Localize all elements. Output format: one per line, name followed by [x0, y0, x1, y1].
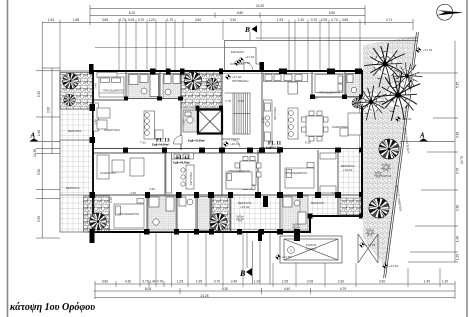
elevation markers [416, 47, 421, 52]
svg-text:5.75: 5.75 [262, 117, 266, 123]
svg-text:24.25: 24.25 [256, 4, 264, 8]
svg-text:Εμβ=84,50m²: Εμβ=84,50m² [173, 161, 190, 165]
FL13 kitchen island + stools [144, 111, 163, 139]
svg-text:ΥΠΝΟΔΩΜΑΤΙΟ: ΥΠΝΟΔΩΜΑΤΙΟ [228, 169, 251, 173]
svg-text:6.80: 6.80 [237, 11, 243, 15]
plot boundary diagonal [384, 32, 419, 278]
svg-text:+17.00: +17.00 [241, 61, 251, 65]
left rotated dim labels [33, 91, 51, 222]
outer envelope walls [93, 71, 362, 232]
svg-text:3.16: 3.16 [456, 132, 460, 138]
FL13 second bath [163, 74, 181, 99]
FL13 bath fixtures [129, 75, 159, 97]
planter box top-left [60, 73, 93, 110]
FL11 kitchen counter left wall [264, 100, 273, 148]
svg-text:ΚΟΥΖΙΝΑ: ΚΟΥΖΙΝΑ [189, 172, 193, 185]
svg-text:1.88: 1.88 [73, 18, 79, 22]
svg-text:ΚΑΘΙΣΤΙΚΟ: ΚΑΘΙΣΤΙΚΟ [104, 128, 121, 132]
bottom small wc fixtures [179, 197, 210, 231]
svg-text:ΒΕΡΑΝΤΑ: ΒΕΡΑΝΤΑ [66, 186, 80, 190]
svg-text:+16.30: +16.30 [240, 205, 250, 209]
svg-text:3.30: 3.30 [47, 107, 51, 113]
svg-text:1.93: 1.93 [277, 18, 283, 22]
end ticks [89, 5, 91, 25]
street double line [225, 38, 418, 41]
svg-text:ΥΠΝΟΔΩΜΑΤΙΟ: ΥΠΝΟΔΩΜΑΤΙΟ [318, 91, 341, 95]
section marker B top [244, 25, 257, 40]
circled 2 [288, 247, 295, 254]
svg-text:+41.50: +41.50 [282, 255, 292, 259]
svg-text:κάτοψη 1ου Ορόφου: κάτοψη 1ου Ορόφου [10, 302, 95, 313]
svg-text:2.30: 2.30 [338, 280, 344, 284]
svg-text:1.40: 1.40 [424, 280, 430, 284]
right veranda FL11 [339, 151, 362, 195]
sheet left border line [7, 0, 9, 317]
svg-text:3.30: 3.30 [230, 18, 236, 22]
FL11 dining table + chairs [302, 111, 329, 141]
FL13 kitchen counter left [94, 103, 99, 131]
FL12 sofa + coffee table [97, 155, 144, 179]
svg-text:Εμβ=91,50m²: Εμβ=91,50m² [266, 146, 283, 150]
svg-text:ΚΑΘΙΣΤΙΚΟ: ΚΑΘΙΣΤΙΚΟ [332, 125, 349, 129]
small round planter FL11 [352, 98, 362, 108]
svg-text:5.35: 5.35 [456, 82, 460, 88]
left veranda strip outline [60, 71, 93, 232]
svg-text:0.70: 0.70 [331, 18, 337, 22]
FL12 island stools [181, 165, 194, 189]
shaft block [263, 196, 268, 207]
svg-text:2.05: 2.05 [307, 280, 313, 284]
FL11 bed top right [315, 75, 343, 93]
svg-text:9.35: 9.35 [305, 141, 311, 145]
FL13 closet top [97, 73, 117, 78]
svg-text:+41.45: +41.45 [402, 117, 412, 121]
svg-text:1.53: 1.53 [48, 18, 54, 22]
palm tree 1 [364, 43, 405, 87]
wheel tree bottom-left [89, 213, 107, 231]
svg-text:4.30: 4.30 [130, 191, 136, 195]
palm tree 2 [375, 72, 420, 121]
svg-text:Εμβ=43,90m²: Εμβ=43,90m² [188, 139, 205, 143]
svg-text:1.05: 1.05 [282, 280, 288, 284]
svg-text:0.70: 0.70 [157, 280, 163, 284]
svg-text:B: B [244, 25, 250, 34]
svg-text:A: A [30, 132, 36, 140]
svg-text:0.70: 0.70 [142, 280, 148, 284]
svg-text:0.70: 0.70 [119, 18, 125, 22]
svg-text:4.05: 4.05 [331, 191, 337, 195]
svg-text:2.30: 2.30 [456, 205, 460, 211]
svg-text:3.85: 3.85 [102, 18, 108, 22]
svg-text:24.25: 24.25 [201, 294, 209, 298]
thick wall posts [89, 62, 363, 243]
svg-text:ΚΟΥΖΙΝΑ: ΚΟΥΖΙΝΑ [273, 107, 277, 120]
svg-text:4.71: 4.71 [386, 18, 392, 22]
FL12 kitchen counters [166, 153, 194, 193]
svg-text:ΥΠΝΟΔΩΜΑΤΙΟ: ΥΠΝΟΔΩΜΑΤΙΟ [102, 89, 125, 93]
FL11 island + stools [288, 108, 298, 139]
WC beside elevator [183, 110, 197, 132]
svg-text:3.85: 3.85 [342, 18, 348, 22]
apartment labels [152, 138, 283, 165]
palm tree 3 [354, 86, 387, 121]
svg-text:+17.03: +17.03 [423, 48, 433, 52]
wheel tree mid 1 [184, 72, 202, 90]
garden strip hatched [363, 36, 416, 268]
svg-text:14.36: 14.36 [33, 149, 37, 157]
svg-text:0.70: 0.70 [138, 18, 144, 22]
dim line 8.10/6.80/6.50 [90, 15, 365, 17]
svg-text:1.20: 1.20 [456, 254, 460, 260]
svg-text:1.20: 1.20 [148, 18, 154, 22]
bottom-mid planter + tree [212, 196, 231, 232]
svg-text:3.70: 3.70 [456, 168, 460, 174]
svg-text:5.30: 5.30 [222, 287, 228, 291]
FL13 sofa [97, 108, 110, 129]
svg-text:3.35: 3.35 [37, 216, 41, 222]
top small dim numbers [48, 18, 392, 22]
parking/garden X box [280, 236, 342, 263]
bottom witness lines [116, 233, 440, 287]
wheel tree mid 2 [206, 78, 218, 90]
svg-text:1.40: 1.40 [149, 280, 155, 284]
svg-text:ΚΗΠΟΣ: ΚΗΠΟΣ [381, 174, 392, 178]
window inner lines along exterior [95, 74, 360, 230]
palm tree 4 [386, 56, 426, 96]
svg-text:1.20: 1.20 [298, 18, 304, 22]
section marker A right [400, 132, 455, 142]
bottom right veranda [310, 196, 338, 216]
svg-text:4.79: 4.79 [340, 287, 346, 291]
svg-text:8.08: 8.08 [145, 287, 151, 291]
svg-text:ΚΑΘΙΣΤΙΚΟ: ΚΑΘΙΣΤΙΚΟ [100, 171, 117, 175]
bushes [381, 163, 391, 172]
svg-text:14.75: 14.75 [460, 156, 464, 164]
bottom-left planter + tree [84, 196, 110, 232]
svg-text:1.20: 1.20 [442, 280, 448, 284]
svg-text:ΒΕΡΑΝΤΑ: ΒΕΡΑΝΤΑ [68, 129, 82, 133]
svg-text:4.40: 4.40 [284, 287, 290, 291]
bottom bathroom tiles left [148, 196, 176, 232]
svg-text:Εμβ=94,00m²: Εμβ=94,00m² [152, 143, 169, 147]
north arrow [437, 4, 464, 20]
section marker A left [30, 132, 61, 142]
svg-text:3.45: 3.45 [94, 119, 98, 125]
section marker B bottom [239, 233, 252, 278]
svg-text:ΠΡΟΣΒΑΣΗ: ΠΡΟΣΒΑΣΗ [232, 79, 248, 83]
svg-text:ΥΠΝΟΔΩΜΑΤΙΟ: ΥΠΝΟΔΩΜΑΤΙΟ [285, 171, 308, 175]
svg-text:3.10: 3.10 [109, 197, 113, 203]
svg-text:+16.30: +16.30 [343, 168, 353, 172]
dim line 24.25 [90, 8, 365, 10]
canopy line above terrace [95, 47, 224, 49]
elevator shaft [198, 110, 222, 134]
svg-text:3.90: 3.90 [149, 187, 155, 191]
svg-text:6.50: 6.50 [329, 11, 335, 15]
bottom middle veranda tiles [231, 196, 279, 232]
bottom mid row numbers [145, 287, 346, 291]
svg-text:1.05: 1.05 [196, 280, 202, 284]
svg-text:+17.00: +17.00 [245, 55, 255, 59]
main internal walls [93, 64, 362, 232]
FL11 closets right [320, 153, 336, 193]
svg-text:A: A [419, 132, 425, 140]
funnel X right [358, 234, 378, 263]
FL13 bathroom tiles [128, 74, 159, 99]
svg-text:3.30: 3.30 [37, 169, 41, 175]
svg-text:4.30: 4.30 [125, 280, 131, 284]
FL11 kitchen counters top [264, 74, 308, 95]
svg-text:1.20: 1.20 [254, 280, 260, 284]
svg-text:3.05: 3.05 [128, 18, 134, 22]
svg-text:0.90: 0.90 [238, 99, 244, 103]
bottom small dim numbers row [102, 280, 448, 284]
svg-text:B: B [239, 269, 246, 278]
FL13 bed [99, 77, 124, 97]
path below building [253, 233, 270, 284]
wheel tree TL1 [62, 73, 78, 89]
svg-text:1.25: 1.25 [177, 280, 183, 284]
svg-text:2.05: 2.05 [182, 119, 186, 125]
svg-text:ΔΙΑΔΡΟΜΟΣ: ΔΙΑΔΡΟΜΟΣ [222, 137, 240, 141]
svg-text:1.75: 1.75 [225, 99, 231, 103]
FL11 lower bedroom bed [285, 163, 314, 189]
svg-text:5.35: 5.35 [37, 91, 41, 97]
FL11 lower bathroom [282, 196, 308, 231]
staircase [225, 93, 251, 147]
entry door swing arc [244, 62, 253, 71]
sheet right border line [466, 0, 468, 317]
svg-text:ΥΠΝΟΔΩΜΑΤΙΟ: ΥΠΝΟΔΩΜΑΤΙΟ [117, 212, 140, 216]
door arc FL13 entry [174, 136, 183, 145]
bottom right planter [340, 198, 362, 216]
svg-text:23,40m²: 23,40m² [305, 247, 316, 251]
wheel tree bottom-mid [210, 213, 228, 231]
middle planter strip [181, 72, 222, 109]
svg-text:3.30: 3.30 [312, 96, 318, 100]
room labels [66, 89, 349, 217]
veranda tiles left [60, 107, 93, 232]
dim small row line [42, 21, 413, 23]
svg-text:+16.03: +16.03 [230, 142, 240, 146]
svg-text:7.01: 7.01 [140, 141, 146, 145]
svg-text:1.40: 1.40 [456, 236, 460, 242]
FL11 top-right bath [346, 74, 362, 97]
wheel tree TL2 [64, 94, 76, 106]
svg-text:0.70: 0.70 [214, 280, 220, 284]
svg-text:0.70: 0.70 [311, 18, 317, 22]
svg-text:3.60: 3.60 [102, 280, 108, 284]
FL12 dining table [235, 157, 261, 190]
svg-text:2.46: 2.46 [37, 130, 41, 136]
svg-text:8.10: 8.10 [129, 11, 135, 15]
interior mini dims [94, 83, 338, 203]
svg-text:3.60: 3.60 [195, 18, 201, 22]
svg-text:3.40: 3.40 [94, 83, 98, 89]
svg-text:2.05: 2.05 [321, 18, 327, 22]
wheel tree garden 1 [379, 139, 400, 160]
svg-text:+41.45: +41.45 [366, 243, 376, 247]
palm white backdrops [361, 52, 416, 112]
svg-text:ΒΕΡΑΝΤΑ: ΒΕΡΑΝΤΑ [311, 201, 325, 205]
FL12 bedroom bed [226, 172, 252, 189]
svg-text:2.40: 2.40 [231, 280, 237, 284]
svg-text:+41.50: +41.50 [389, 264, 399, 268]
stair bulkhead [225, 40, 263, 71]
svg-text:1.70: 1.70 [167, 18, 173, 22]
svg-text:ΕΙΣΟΔΟΣ: ΕΙΣΟΔΟΣ [231, 50, 244, 54]
svg-text:3.30: 3.30 [379, 280, 385, 284]
wheel tree garden 2 [369, 198, 390, 219]
top small row ticks + witness lines [60, 20, 360, 72]
FL12 lower bed [114, 199, 144, 229]
FL11 sofa right [340, 113, 361, 136]
